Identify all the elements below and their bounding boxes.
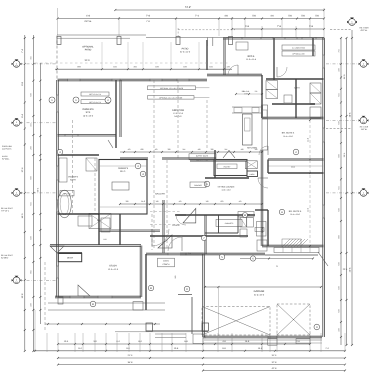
stoop box	[193, 334, 203, 344]
bedroom4 north wall	[262, 117, 324, 119]
exterior wall top right	[223, 37, 324, 39]
study east wall	[140, 246, 142, 298]
powder south wall	[205, 232, 238, 234]
keyed circle 8	[184, 286, 190, 292]
hall east wall	[261, 75, 262, 118]
window symbol	[359, 188, 369, 196]
pantry label box	[217, 164, 237, 169]
gallery dash	[151, 214, 153, 250]
door swing gallery south	[152, 229, 169, 246]
garage top dim row	[240, 258, 313, 260]
window east 3	[323, 205, 325, 218]
window north 3	[150, 79, 162, 81]
svg-text:BUFFET NICHE: BUFFET NICHE	[196, 154, 209, 157]
bath fixture	[284, 95, 292, 103]
left dim line 3	[39, 63, 41, 324]
north wall left	[58, 79, 208, 81]
extension line bottom	[217, 333, 219, 352]
extension line bottom	[344, 333, 346, 352]
svg-text:STUDY: STUDY	[109, 265, 117, 268]
garage side door leaf	[318, 252, 328, 266]
interior dim bedrooms	[309, 120, 311, 246]
keyed circle W	[243, 213, 248, 218]
svg-text:17'-4: 17'-4	[21, 167, 24, 173]
pantry room box	[214, 160, 247, 176]
owner tub oval	[58, 190, 72, 218]
keyed circle 6	[204, 181, 210, 187]
porch post left	[58, 297, 63, 304]
window owner suite south	[65, 134, 78, 136]
svg-text:BED 6: BED 6	[248, 55, 255, 58]
extension line bottom	[171, 333, 173, 352]
mech door leaf	[50, 246, 64, 253]
extension line bottom	[94, 333, 96, 352]
hall south wall	[99, 230, 160, 231]
stoop box	[133, 302, 143, 310]
svg-text:9-0 CLG: 9-0 CLG	[174, 115, 182, 118]
dim line top right row3	[232, 28, 324, 30]
svg-text:5-0 CLG: 5-0 CLG	[243, 90, 250, 93]
svg-text:EW: EW	[15, 281, 18, 284]
porch east wall	[191, 297, 193, 334]
cubby divider	[300, 248, 302, 253]
svg-text:31'-4: 31'-4	[272, 354, 278, 357]
svg-text:STE: STE	[86, 111, 91, 114]
porch edge line 1	[48, 302, 165, 304]
extension line top right	[323, 8, 325, 40]
svg-text:4-8: 4-8	[198, 148, 201, 151]
extension line bottom	[116, 333, 118, 352]
svg-text:CABINETS: CABINETS	[225, 222, 234, 225]
spacer	[276, 265, 278, 268]
garage door opening 1	[205, 336, 268, 338]
svg-text:A: A	[281, 211, 283, 214]
svg-text:36'-8: 36'-8	[128, 361, 134, 364]
svg-text:OPT'NL: OPT'NL	[84, 20, 92, 23]
svg-text:B: B	[92, 303, 94, 306]
mud bench cubbies	[274, 248, 319, 253]
svg-text:EW: EW	[15, 194, 18, 197]
svg-text:10-8: 10-8	[174, 347, 179, 350]
svg-text:6-8: 6-8	[141, 148, 144, 151]
slider leader 3	[196, 87, 210, 89]
window north 4	[177, 79, 189, 81]
powder west wall	[218, 215, 220, 233]
extension line	[231, 17, 233, 38]
shower owners bath	[86, 158, 97, 171]
bottom dim line 2	[35, 350, 345, 352]
bed6 closet	[236, 42, 248, 50]
extension line bottom	[46, 333, 48, 352]
bedroom west wall	[261, 150, 263, 246]
sitting north wall	[205, 177, 249, 178]
patio extension vertical	[198, 42, 200, 69]
keyed circle 1	[49, 97, 55, 103]
right dim line 3	[351, 30, 353, 345]
owners wic room box	[99, 160, 147, 215]
great room south wall west part	[120, 158, 148, 159]
svg-text:37'-8: 37'-8	[272, 361, 278, 364]
patio edge line	[57, 37, 130, 39]
cab diag	[310, 83, 321, 93]
foyer east wall	[205, 215, 206, 254]
garage dim extension	[217, 287, 219, 337]
keyed circle bath	[57, 149, 62, 154]
window top 4	[227, 37, 242, 39]
svg-text:11-6: 11-6	[306, 208, 309, 212]
garage south wall	[204, 336, 323, 338]
symbol leader	[20, 63, 57, 65]
svg-text:4-8: 4-8	[241, 148, 244, 151]
symbol leader right	[326, 63, 359, 65]
ceiling dash v2	[166, 160, 168, 250]
svg-text:BR. SUITE 4: BR. SUITE 4	[282, 132, 295, 135]
svg-text:SITTING LOUNGE: SITTING LOUNGE	[218, 186, 236, 189]
bedroom5 south wall	[262, 245, 324, 247]
door leaf foyer	[158, 235, 172, 248]
svg-text:KITCHEN: KITCHEN	[247, 147, 257, 150]
bottom dim line 3	[58, 357, 345, 359]
svg-text:BR. SUITE 5: BR. SUITE 5	[289, 210, 302, 213]
keyed circle B	[90, 301, 96, 307]
dim dashed vertical bath	[94, 158, 96, 214]
laundry box	[238, 212, 254, 217]
keyed circle wic b	[140, 171, 146, 177]
patio extension vertical	[101, 42, 103, 69]
garage north wall west	[180, 253, 265, 255]
washer diag	[240, 218, 247, 228]
kitchen counter right	[262, 105, 268, 150]
patio dim line	[55, 68, 232, 70]
door leaf above pantry	[223, 151, 235, 159]
svg-text:PATIO: PATIO	[182, 47, 189, 50]
extension line bottom	[128, 333, 130, 352]
svg-text:EW: EW	[15, 65, 18, 68]
svg-text:EW: EW	[15, 124, 18, 127]
svg-text:POWDER: POWDER	[194, 184, 202, 187]
svg-text:OPT'L 2-8 x 5-0: OPT'L 2-8 x 5-0	[89, 101, 101, 104]
garage apron 1	[204, 339, 322, 341]
window west 4	[57, 266, 59, 278]
covd porch west wall	[145, 254, 146, 310]
extension line bottom	[320, 333, 322, 352]
window north 2	[112, 79, 120, 81]
window west 2	[57, 166, 59, 180]
door swing foyer left	[176, 215, 186, 225]
wall below wic	[98, 214, 99, 245]
wall corner down	[224, 38, 225, 75]
svg-text:4-0: 4-0	[179, 200, 182, 203]
bath5 east wall	[267, 210, 268, 246]
right dim line 2	[346, 38, 348, 345]
mech room box	[58, 253, 81, 261]
garage step box 2	[296, 339, 310, 344]
wic island	[112, 182, 129, 190]
cabinet 3	[310, 107, 321, 118]
optional patio west dashed	[56, 36, 58, 81]
great room west wall	[120, 80, 121, 137]
extension line bottom	[82, 333, 84, 352]
svg-text:6-0: 6-0	[221, 200, 224, 203]
ceiling dash v3	[177, 80, 179, 160]
washer dryer squares	[266, 81, 278, 90]
optional slider note box 2	[81, 100, 109, 104]
patio roof edge west	[57, 34, 146, 36]
west exterior wall	[57, 80, 59, 297]
wall hall2	[119, 214, 120, 245]
window west 1	[57, 95, 59, 112]
wd diagonal 1	[266, 81, 278, 90]
patio roof edge east	[146, 37, 223, 39]
symbol leader right	[326, 192, 359, 194]
svg-text:PANTRY: PANTRY	[224, 166, 232, 169]
window top 7	[302, 37, 316, 39]
wd diagonal 2	[266, 90, 278, 99]
svg-text:OPT'NL: OPT'NL	[361, 128, 367, 131]
buffet niche box	[189, 154, 216, 160]
shower bath5	[257, 240, 267, 251]
closet diag	[89, 214, 111, 229]
note leader right	[326, 128, 352, 130]
svg-text:14-0: 14-0	[141, 200, 145, 203]
garage door opening 2	[277, 336, 310, 338]
symbol leader	[20, 279, 57, 281]
extension line bottom	[202, 333, 204, 352]
porch edge line 2	[48, 309, 165, 311]
gallery dash row 2	[150, 224, 180, 226]
porch post A	[146, 323, 153, 331]
keyed circle wic a	[135, 163, 141, 169]
keyed circle br5	[279, 209, 284, 214]
washer	[240, 218, 247, 228]
svg-text:COV'D: COV'D	[163, 260, 169, 263]
closet rod line	[268, 165, 324, 167]
patio post	[176, 37, 180, 45]
svg-text:13-0 x 10-8: 13-0 x 10-8	[221, 189, 230, 192]
svg-text:5-8: 5-8	[255, 90, 258, 93]
cubby divider	[309, 248, 311, 253]
svg-text:PORCH: PORCH	[163, 263, 170, 266]
note b3	[255, 228, 264, 232]
powder east wall	[237, 215, 239, 233]
island sink	[245, 118, 251, 131]
south wall center	[150, 235, 248, 236]
svg-text:14'-0: 14'-0	[21, 213, 24, 219]
cab diag b	[245, 161, 257, 169]
closet band west wall	[267, 160, 268, 174]
svg-text:FOYER: FOYER	[173, 224, 180, 227]
extension line bottom	[105, 333, 107, 352]
keyed circle br4	[293, 149, 299, 155]
porch step 1	[155, 333, 186, 335]
window west 3	[57, 200, 59, 212]
dashed extension top	[177, 28, 179, 38]
svg-text:10-4: 10-4	[64, 340, 69, 343]
svg-text:EW: EW	[362, 65, 365, 68]
extension line b	[175, 19, 177, 36]
slider leader 4	[194, 96, 209, 98]
svg-text:OWNER'S: OWNER'S	[68, 176, 78, 179]
svg-text:PATIO: PATIO	[85, 49, 92, 52]
window east 1	[323, 55, 325, 68]
jamb tick2	[212, 38, 214, 47]
kitchen counter bottom edge	[232, 112, 262, 114]
powder north wall	[190, 160, 247, 162]
porch front edge	[146, 330, 208, 332]
shower diag	[86, 158, 97, 171]
bottom dim line 4	[58, 364, 345, 366]
bottom dim line 5	[203, 370, 345, 372]
porch step 2	[155, 337, 186, 339]
extension line bottom	[57, 333, 59, 352]
svg-text:MECH: MECH	[67, 257, 74, 260]
buffet wall	[162, 158, 216, 159]
garage west wall	[203, 254, 205, 337]
svg-text:4-0: 4-0	[239, 200, 242, 203]
ceiling dash v1	[153, 80, 155, 250]
garage door panel 1 with X brace	[202, 307, 270, 336]
closet diag2	[89, 214, 111, 229]
svg-text:OPTIONAL 12-0 x 8-0 SLIDER: OPTIONAL 12-0 x 8-0 SLIDER	[160, 87, 184, 90]
patio dashed dim	[35, 62, 230, 64]
patio extension vertical	[127, 42, 129, 69]
cabinet 2	[310, 93, 321, 104]
svg-text:W.I.C.: W.I.C.	[120, 170, 126, 173]
svg-text:EW: EW	[350, 23, 353, 26]
ceiling dash v4	[206, 100, 208, 150]
window symbol	[12, 276, 22, 284]
symbol leader	[20, 192, 57, 194]
svg-text:12-0 x 12-0: 12-0 x 12-0	[108, 268, 119, 271]
extension line c	[218, 19, 220, 36]
svg-text:31-0 x 12-0: 31-0 x 12-0	[180, 51, 191, 54]
right dim line 1	[340, 38, 342, 345]
symbol leader	[20, 122, 57, 124]
extension line bottom	[269, 333, 271, 352]
porch dim row	[45, 323, 160, 325]
study north wall	[50, 245, 141, 247]
wall hall top right	[312, 38, 313, 56]
extension line	[261, 26, 263, 38]
patio post	[229, 37, 233, 45]
ceiling dashed top	[178, 29, 235, 31]
svg-text:4x4 POSTS: 4x4 POSTS	[2, 147, 12, 150]
note box linen	[282, 45, 315, 50]
closet band north wall	[268, 159, 324, 160]
cab diag2	[310, 93, 321, 104]
extension line bottom	[261, 333, 263, 352]
extension line bottom	[309, 333, 311, 352]
range	[263, 110, 268, 118]
kitchen island	[243, 114, 253, 145]
svg-text:OPT TUB: OPT TUB	[63, 193, 71, 196]
extension line bottom	[276, 333, 278, 352]
extension line bottom left	[34, 310, 36, 352]
svg-text:13'-8: 13'-8	[21, 293, 24, 299]
keyed circle 7	[201, 235, 206, 240]
wc owners	[78, 216, 92, 226]
extension line bottom	[161, 333, 163, 352]
mech south wall	[58, 252, 83, 253]
svg-text:4-0: 4-0	[155, 148, 158, 151]
extension line bottom	[74, 333, 76, 352]
south wall upper bedrooms	[207, 74, 262, 76]
covd porch label box	[158, 258, 175, 267]
walk edge line	[115, 331, 208, 333]
dim dashed vertical owner suite	[72, 120, 74, 214]
svg-text:OPTIONAL W/D: OPTIONAL W/D	[292, 53, 305, 56]
garage step box 1	[268, 339, 277, 346]
extension line bottom	[231, 333, 233, 352]
east exterior wall	[323, 38, 325, 337]
svg-text:OPTIONAL: OPTIONAL	[82, 46, 94, 49]
svg-text:5-4: 5-4	[225, 148, 228, 151]
svg-text:14-0 x 16-0: 14-0 x 16-0	[83, 114, 94, 117]
svg-text:74'-8": 74'-8"	[185, 6, 191, 9]
window east 2	[323, 128, 325, 142]
optional slider note box 1	[81, 92, 109, 96]
svg-text:W/ WALL: W/ WALL	[2, 157, 10, 160]
laundry north wall	[266, 78, 324, 79]
svg-text:W/ BRKT: W/ BRKT	[1, 256, 9, 259]
svg-text:2-8: 2-8	[168, 148, 171, 151]
extension line e	[281, 19, 283, 37]
closet hall X box	[89, 214, 111, 229]
svg-text:2-8: 2-8	[211, 148, 214, 151]
svg-text:31'-0: 31'-0	[84, 59, 90, 62]
svg-text:1-8: 1-8	[156, 200, 159, 203]
kitchen counter top edge	[232, 106, 262, 108]
powder box	[190, 182, 206, 187]
svg-text:TYP OF 4: TYP OF 4	[1, 209, 9, 212]
cabinet stack right	[310, 83, 321, 93]
svg-text:11-4 x 11-0: 11-4 x 11-0	[283, 135, 292, 138]
window symbol	[12, 59, 22, 67]
window top 6	[285, 37, 297, 39]
door swing br4	[259, 146, 268, 155]
svg-text:2-8: 2-8	[126, 200, 129, 203]
svg-text:GARAGE: GARAGE	[254, 290, 265, 293]
svg-text:B: B	[150, 287, 152, 290]
interior dim row y204	[120, 203, 262, 205]
dim leader bed6	[236, 93, 262, 95]
svg-text:BATH: BATH	[294, 87, 300, 90]
svg-text:EW: EW	[362, 194, 365, 197]
garage dim line	[205, 286, 321, 288]
svg-text:GALLERY: GALLERY	[155, 193, 166, 196]
wall bath west	[295, 79, 296, 118]
left dim line 2	[32, 35, 34, 351]
svg-text:21'-4: 21'-4	[128, 354, 134, 357]
cabinet X box right of pantry	[245, 161, 257, 169]
left dim line 1	[24, 35, 26, 351]
svg-text:6-0 LINEN BYND: 6-0 LINEN BYND	[292, 47, 306, 50]
cubby divider	[291, 248, 293, 253]
garage north wall east thin	[265, 254, 318, 256]
tub bath5	[257, 222, 267, 237]
svg-text:BATH: BATH	[261, 227, 264, 233]
svg-text:4-0: 4-0	[128, 148, 131, 151]
svg-text:EW: EW	[362, 121, 365, 124]
svg-text:BATH: BATH	[70, 179, 76, 182]
keyed circle garage	[219, 254, 225, 260]
svg-text:16-8: 16-8	[245, 340, 250, 343]
svg-text:1-8: 1-8	[206, 200, 209, 203]
jamb tick	[207, 38, 209, 47]
dryer square	[266, 90, 278, 99]
svg-text:5-4: 5-4	[183, 148, 186, 151]
extension line	[295, 26, 297, 38]
